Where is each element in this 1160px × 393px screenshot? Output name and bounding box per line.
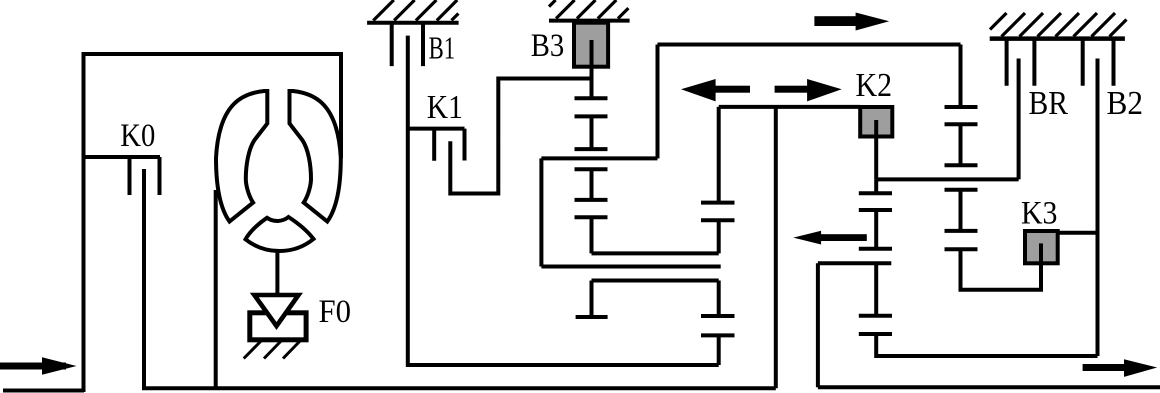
ground hatch B3 — [549, 0, 628, 19]
brake BR/B2 legs — [1007, 39, 1114, 86]
wire rear shaft A with meshes — [859, 179, 1098, 356]
svg-text:K3: K3 — [1021, 195, 1058, 231]
torque converter stator — [246, 217, 314, 251]
freewheel F0 triangle — [254, 295, 298, 326]
svg-text:BR: BR — [1029, 85, 1069, 122]
wire TC left vertical — [214, 190, 218, 388]
svg-text:F0: F0 — [319, 294, 352, 330]
wire output drum long tick — [818, 261, 891, 265]
wire B1/K1 shaft — [408, 36, 719, 365]
ground BR/B2 bar — [990, 36, 1125, 41]
wire K2 inner shaft — [874, 120, 878, 179]
svg-text:B3: B3 — [531, 28, 565, 64]
brake B3 piston — [574, 23, 608, 67]
wire output bottom line — [818, 385, 1160, 389]
ground hatch BR/B2 — [990, 13, 1127, 37]
wire middle long line — [541, 265, 720, 269]
svg-text:K1: K1 — [427, 89, 463, 126]
wire output drum left vertical — [816, 263, 820, 387]
svg-text:K0: K0 — [120, 118, 155, 154]
wire stator shaft — [275, 249, 279, 297]
arrow top right — [814, 13, 889, 31]
wire BR link line — [876, 177, 1018, 181]
freewheel F0 box — [250, 313, 306, 340]
wire front ring shaft with meshes — [701, 107, 735, 365]
clutch K0 drum — [84, 157, 161, 195]
arrow lower left — [793, 231, 867, 245]
ground hatch F0 — [244, 341, 300, 359]
ground hatch B1 — [373, 0, 458, 21]
svg-text:K2: K2 — [856, 67, 893, 104]
ground B3 bar — [549, 19, 630, 23]
clutch K1 inner plate and link to B3 shaft — [450, 79, 591, 194]
input arrow — [0, 357, 77, 374]
wire top line — [658, 43, 961, 47]
wire K3 drum link — [1058, 231, 1098, 235]
wire BR shaft — [1017, 59, 1021, 180]
torque converter right blade — [290, 91, 341, 222]
arrow mid right — [775, 79, 842, 101]
wire B3 sun shaft with meshes — [575, 40, 608, 253]
svg-text:B2: B2 — [1107, 85, 1144, 122]
clutch K3 piston — [1025, 231, 1058, 263]
brake B1 legs — [392, 23, 423, 66]
wire long carrier tick line — [541, 156, 657, 160]
wire input drum right vertical — [774, 107, 778, 388]
wire B2 shaft — [1096, 59, 1100, 357]
wire housing top — [82, 52, 342, 56]
arrow mid left — [681, 79, 750, 101]
wire n-link at 280 — [576, 281, 719, 318]
wire input drum top link — [719, 105, 861, 109]
wire housing left vertical — [82, 54, 86, 392]
wire turbine shaft bottom line — [142, 386, 776, 390]
wire shaft B with meshes — [945, 45, 1042, 290]
svg-text:B1: B1 — [429, 31, 456, 66]
clutch K0 inner shaft — [142, 169, 146, 390]
wire housing right vertical — [339, 52, 343, 158]
torque converter left blade — [216, 91, 267, 222]
wire U-link at 253 — [592, 251, 719, 255]
clutch K1 drum — [408, 129, 465, 161]
arrow output — [1083, 359, 1158, 377]
ground B1 bar — [367, 21, 459, 25]
wire left drum vertical — [539, 158, 543, 266]
wire ring vertical to top line — [656, 45, 660, 159]
wire K3 inner shaft — [1039, 243, 1043, 264]
wire input foot bottom-left — [3, 389, 84, 393]
clutch K2 piston — [860, 107, 892, 137]
